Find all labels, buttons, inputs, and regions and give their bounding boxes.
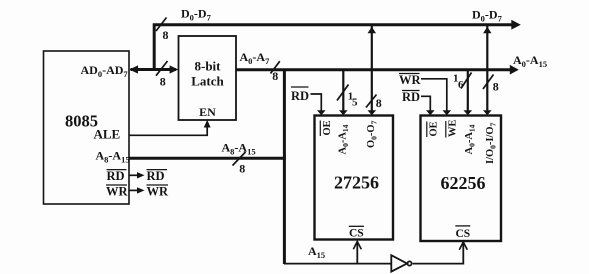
wire: A bus down to 62256 A0-A14 xyxy=(467,71,469,111)
svg-text:O0-O7: O0-O7 xyxy=(366,120,379,148)
wire: ALE to latch EN xyxy=(129,123,207,135)
wire: D bus down to 27256 O0-O7 xyxy=(371,26,373,111)
svg-text:WR: WR xyxy=(399,73,422,87)
wire: branch up to 27256 CS xyxy=(356,241,358,264)
wire: AD0-AD7 between 8085 and latch xyxy=(131,68,177,71)
svg-text:8-bit: 8-bit xyxy=(195,59,222,74)
wire: A8-A15 from 8085 xyxy=(129,157,286,160)
27256 pin OE (rotated) xyxy=(320,120,333,136)
slash 8 on AD line xyxy=(156,61,168,76)
wire: RD to 27256 OE xyxy=(311,94,322,111)
arrow RD out xyxy=(129,174,140,176)
8-bit latch box xyxy=(179,36,237,120)
arrowhead: D bus right end xyxy=(511,20,521,30)
wire: D bus down to 62256 I/O xyxy=(486,26,488,111)
wire: RD to 62256 OE xyxy=(421,96,430,110)
svg-text:8: 8 xyxy=(160,75,166,89)
arrowhead: A bus right end xyxy=(510,65,519,75)
slash 15 xyxy=(337,85,349,101)
27256 pin A0-A14 (rotated) xyxy=(338,124,351,154)
slash 8 xyxy=(366,95,377,108)
27256 pin O0-O7 (rotated) xyxy=(366,120,379,148)
8085 CPU box xyxy=(44,51,130,204)
EPROM 27256 box xyxy=(315,116,394,240)
svg-text:27256: 27256 xyxy=(334,173,379,193)
svg-text:Latch: Latch xyxy=(191,74,224,89)
wire: inverter output to 62256 CS xyxy=(413,242,464,264)
wire: A bus down to 27256 A0-A14 xyxy=(342,71,344,111)
62256 pin WE (rotated) xyxy=(446,119,459,137)
slash 8 on D bus xyxy=(156,18,167,32)
svg-text:CS: CS xyxy=(349,227,364,239)
svg-text:RD: RD xyxy=(107,169,125,183)
svg-text:8: 8 xyxy=(163,28,169,42)
svg-text:WR: WR xyxy=(106,185,129,199)
arrow WR out xyxy=(129,189,140,191)
wire: D0-D7 data bus top horizontal with corner down to AD line xyxy=(154,25,512,70)
svg-text:OE: OE xyxy=(429,121,440,136)
svg-text:CS: CS xyxy=(456,228,471,240)
slash 8 xyxy=(483,75,494,90)
svg-text:RD: RD xyxy=(402,90,420,104)
arrowhead: into 8085 (left) xyxy=(129,65,138,73)
wire: WR to 62256 WE xyxy=(421,79,447,111)
svg-text:I/O0-I/O7: I/O0-I/O7 xyxy=(485,122,498,164)
62256 pin I/O0-I/O7 (rotated) xyxy=(485,122,498,164)
inverter gate xyxy=(391,255,407,271)
svg-text:8: 8 xyxy=(239,162,245,176)
svg-text:6: 6 xyxy=(458,79,464,91)
svg-text:8: 8 xyxy=(376,96,382,110)
svg-text:5: 5 xyxy=(352,97,358,109)
svg-text:AD0-AD7: AD0-AD7 xyxy=(81,63,129,79)
62256 pin OE (rotated) xyxy=(427,121,440,137)
wire: A0-A15 address bus from latch to right xyxy=(236,68,512,71)
SRAM 62256 box xyxy=(421,116,502,242)
svg-text:RD: RD xyxy=(291,89,309,103)
svg-text:8: 8 xyxy=(493,80,499,94)
arrowhead: into latch (right) xyxy=(170,65,179,73)
svg-text:OE: OE xyxy=(322,120,333,135)
svg-text:WR: WR xyxy=(147,185,170,199)
svg-text:EN: EN xyxy=(199,105,216,119)
arrowhead: into EN xyxy=(204,120,211,128)
wire: vertical A15 line down left of 27256 xyxy=(283,70,286,264)
slash 8 on latch output xyxy=(271,61,280,73)
slash 8 on A8-A15 xyxy=(233,152,246,166)
svg-text:WE: WE xyxy=(448,119,459,137)
svg-text:ALE: ALE xyxy=(94,126,121,141)
slash 16 xyxy=(461,73,472,89)
wire: A15 bottom line to inverter xyxy=(284,263,391,265)
62256 pin A0-A14 (rotated) xyxy=(464,124,477,154)
svg-text:8: 8 xyxy=(272,69,278,83)
svg-text:62256: 62256 xyxy=(441,173,486,193)
svg-text:RD: RD xyxy=(147,169,165,183)
